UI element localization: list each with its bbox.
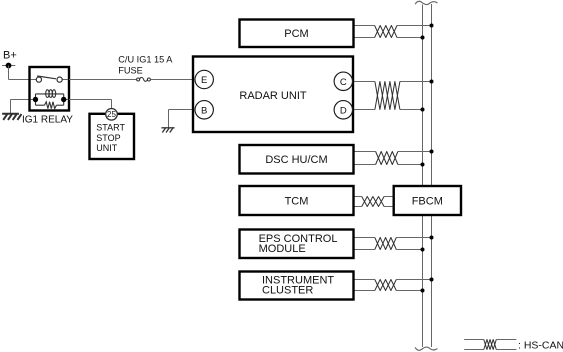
svg-text:CLUSTER: CLUSTER bbox=[262, 285, 313, 297]
svg-text:: HS-CAN: : HS-CAN bbox=[518, 339, 563, 351]
svg-text:MODULE: MODULE bbox=[259, 243, 306, 255]
svg-text:PCM: PCM bbox=[284, 28, 308, 40]
svg-text:FUSE: FUSE bbox=[118, 66, 143, 76]
svg-text:STOP: STOP bbox=[96, 133, 120, 143]
svg-text:RADAR UNIT: RADAR UNIT bbox=[239, 90, 307, 102]
svg-text:B: B bbox=[201, 106, 207, 117]
svg-text:IG1 RELAY: IG1 RELAY bbox=[22, 114, 73, 125]
svg-text:D: D bbox=[340, 106, 347, 117]
svg-text:C/U IG1 15 A: C/U IG1 15 A bbox=[118, 55, 173, 65]
svg-text:DSC HU/CM: DSC HU/CM bbox=[265, 154, 327, 166]
svg-text:C: C bbox=[340, 77, 347, 88]
svg-text:25: 25 bbox=[107, 110, 116, 119]
svg-text:B+: B+ bbox=[3, 50, 17, 62]
svg-text:FBCM: FBCM bbox=[412, 196, 443, 208]
svg-text:START: START bbox=[96, 123, 125, 133]
svg-text:E: E bbox=[201, 75, 207, 86]
svg-text:TCM: TCM bbox=[285, 196, 309, 208]
svg-text:UNIT: UNIT bbox=[96, 143, 117, 153]
